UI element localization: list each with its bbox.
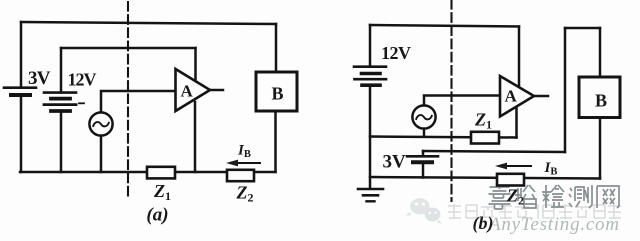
op-amp A triangle: [176, 69, 211, 111]
wire: B bottom lead: [274, 111, 277, 172]
wire: amp top stub: [194, 48, 197, 80]
block B box: [256, 72, 297, 111]
svg-text:Z1: Z1: [153, 181, 171, 203]
svg-text:(b): (b): [473, 213, 494, 234]
wire: (a) drop from top rail to B top: [275, 24, 278, 72]
wire: (b) left vertical to ground: [369, 87, 372, 189]
svg-text:A: A: [181, 82, 194, 101]
wire: 3V top stub: [422, 151, 425, 155]
source V1 sine generator circle: [89, 112, 112, 135]
dashed boundary line (a): [127, 2, 129, 197]
wire: B top lead (b): [599, 28, 602, 77]
wire: 3V bottom stub: [422, 164, 425, 177]
wire: amp lower stub (b): [515, 104, 518, 138]
svg-text:3V: 3V: [383, 152, 407, 173]
wire: (a) left vertical lower (3V bottom lead): [20, 97, 23, 173]
wire: (b) 12V top lead: [369, 25, 372, 66]
svg-text:(a): (a): [146, 205, 168, 226]
watermark big text 嘉峪检测网 (faux hanzi strokes): [489, 185, 620, 209]
battery 12V plates (b): [354, 67, 386, 86]
wire: source top lead to amp input (b): [424, 96, 500, 106]
label: minus sign right of 12V battery: [79, 102, 84, 104]
battery 3V plates (b): [407, 156, 438, 162]
wire: amp output stub (b): [534, 95, 548, 98]
wire: 12V top lead: [60, 48, 63, 91]
watermark wechat icon: [406, 198, 442, 223]
dashed boundary line (b): [450, 0, 452, 201]
current IB arrow (b): [495, 163, 531, 170]
wire: amp top stub (b): [518, 27, 521, 87]
wire: source bottom lead: [100, 136, 103, 172]
wire: (b) bottom rail C: [370, 177, 600, 179]
svg-text:3V: 3V: [28, 68, 51, 89]
wire: amp output stub: [210, 89, 223, 92]
watermark small text row (faux hanzi strokes): [448, 204, 621, 219]
wire: (a) left vertical upper (3V top lead): [20, 22, 23, 87]
wire: (a) second rail (12V to amp top): [61, 47, 196, 50]
wire: bias rail A (left vert to amp lower stub, through Z1): [370, 137, 517, 138]
impedance Z1 box (a): [147, 167, 175, 179]
wire: right loop left vertical: [564, 28, 567, 152]
svg-text:12V: 12V: [381, 43, 411, 63]
current IB arrow (a): [226, 160, 260, 167]
impedance Z1 box (b): [471, 132, 499, 144]
wire: source top lead to amp input: [101, 91, 175, 112]
svg-text:Z1: Z1: [474, 110, 492, 132]
wire: source bottom lead (b): [423, 129, 426, 137]
op-amp A triangle (b): [500, 76, 534, 117]
wire: 12V bottom lead: [60, 113, 63, 172]
wire: (b) top rail: [370, 25, 519, 27]
wire: (a) bottom rail: [20, 171, 276, 174]
wire: B bottom lead (b): [599, 118, 602, 179]
ground symbol: [358, 189, 383, 201]
wire: amp bottom stub: [194, 102, 197, 172]
svg-text:Z2: Z2: [236, 183, 254, 205]
svg-text:12V: 12V: [68, 70, 97, 90]
svg-text:IB: IB: [237, 143, 251, 161]
battery 12V plates: [44, 93, 76, 111]
block B box (b): [579, 77, 620, 118]
wire: (a) top rail: [21, 22, 276, 24]
source V2 sine generator circle (b): [412, 105, 435, 128]
svg-text:B: B: [595, 91, 607, 111]
wire: rail B from 3V to right loop: [423, 151, 565, 152]
impedance Z2 box (b): [497, 174, 524, 186]
svg-text:A: A: [505, 87, 518, 106]
impedance Z2 box (a): [227, 170, 254, 181]
svg-text:IB: IB: [544, 160, 558, 178]
wire: bridge over B: [565, 27, 600, 30]
battery 3V plates: [4, 88, 36, 95]
svg-text:AnyTesting.com: AnyTesting.com: [487, 214, 619, 235]
svg-text:B: B: [272, 84, 284, 104]
